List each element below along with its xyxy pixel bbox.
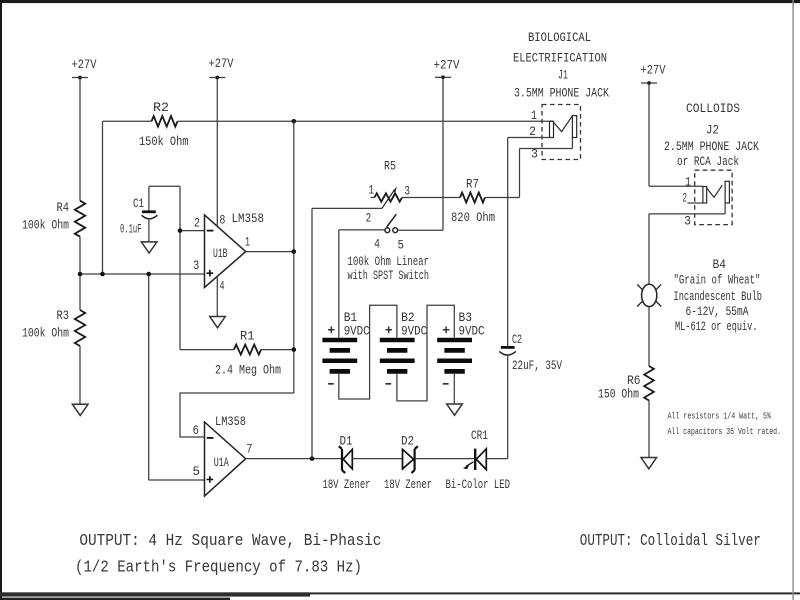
svg-text:All capacitors 35 Volt rated.: All capacitors 35 Volt rated. — [668, 426, 782, 437]
svg-text:D1: D1 — [340, 434, 353, 449]
wire R6 to ground — [648, 401, 650, 458]
svg-text:U1B: U1B — [213, 246, 228, 261]
svg-text:9VDC: 9VDC — [344, 323, 370, 338]
op-amp U1B — [193, 211, 264, 293]
node junction U1B output/feedback — [292, 249, 297, 254]
svg-text:150k Ohm: 150k Ohm — [139, 134, 189, 149]
svg-text:J2: J2 — [706, 123, 719, 138]
svg-text:6-12V, 55mA: 6-12V, 55mA — [686, 304, 749, 319]
svg-text:CR1: CR1 — [471, 428, 488, 443]
svg-text:+27V: +27V — [209, 56, 234, 71]
wire feedback vertical x=293.8 — [293, 121, 295, 393]
svg-text:C1: C1 — [133, 196, 144, 211]
svg-text:or RCA Jack: or RCA Jack — [677, 154, 739, 169]
svg-text:+27V: +27V — [72, 57, 97, 72]
wire bulb to R6 — [648, 307, 650, 366]
svg-text:with SPST Switch: with SPST Switch — [348, 268, 430, 283]
svg-text:5: 5 — [193, 464, 201, 479]
resistor R6 — [598, 366, 654, 401]
svg-text:1: 1 — [531, 108, 537, 123]
ground below R3 — [72, 404, 88, 415]
svg-text:D2: D2 — [401, 434, 414, 449]
svg-text:18V Zener: 18V Zener — [384, 477, 432, 492]
power +27V symbol A — [72, 57, 97, 79]
svg-text:100k Ohm: 100k Ohm — [22, 326, 69, 341]
wire J2 pin1 — [649, 185, 703, 187]
wire R2 left drop x=102.5 — [102, 121, 104, 274]
wire U1A output — [246, 458, 342, 460]
wire switch left to B1 — [339, 230, 385, 338]
wire U1A pin5 drop x=148.7 — [149, 274, 205, 480]
node junction U1A out / R5 wiper net — [310, 456, 315, 461]
label COLLOIDS / J2 heading — [664, 101, 759, 169]
svg-text:9VDC: 9VDC — [459, 323, 485, 338]
svg-text:R4: R4 — [57, 200, 70, 215]
svg-text:LM358: LM358 — [232, 211, 265, 226]
svg-text:OUTPUT: 4 Hz Square Wave, Bi-P: OUTPUT: 4 Hz Square Wave, Bi-Phasic — [79, 531, 381, 550]
svg-text:22uF, 35V: 22uF, 35V — [512, 358, 562, 373]
wire B2 bottom to B3 top — [397, 305, 454, 401]
resistor R2 — [139, 100, 189, 149]
svg-text:1: 1 — [685, 175, 691, 190]
svg-text:(1/2 Earth's Frequency of 7.83: (1/2 Earth's Frequency of 7.83 Hz) — [75, 557, 362, 576]
svg-text:4: 4 — [374, 237, 380, 252]
node +27V rail C (x=443) — [442, 78, 444, 230]
node junction x=148.7 on bus — [146, 272, 151, 277]
svg-text:B4: B4 — [713, 257, 727, 272]
svg-text:8: 8 — [219, 213, 225, 228]
wire top net y=121 to J1 pin 1 — [178, 120, 554, 122]
wire R7 to J1 pin3 — [485, 149, 573, 198]
svg-text:2.5MM PHONE JACK: 2.5MM PHONE JACK — [664, 139, 759, 154]
svg-text:U1A: U1A — [214, 455, 229, 470]
svg-text:2: 2 — [194, 215, 200, 230]
diode D1 18V Zener — [323, 434, 371, 493]
svg-text:100k Ohm Linear: 100k Ohm Linear — [348, 254, 430, 269]
svg-text:820 Ohm: 820 Ohm — [451, 210, 495, 225]
label BIOLOGICAL ELECTRIFICATION / J1 heading — [513, 30, 609, 101]
ground below R6 — [641, 458, 657, 469]
wire U1B pin4 to ground — [216, 277, 218, 317]
svg-text:C2: C2 — [512, 332, 522, 347]
wire C2 net vertical (J1 pin2 down) — [507, 138, 509, 459]
svg-text:ELECTRIFICATION: ELECTRIFICATION — [513, 51, 607, 66]
svg-text:LM358: LM358 — [215, 414, 246, 429]
svg-text:2.4 Meg Ohm: 2.4 Meg Ohm — [215, 363, 281, 378]
svg-text:ML-612 or equiv.: ML-612 or equiv. — [675, 319, 758, 334]
svg-text:Incandescent Bulb: Incandescent Bulb — [674, 289, 763, 304]
node junction R1/feedback — [292, 347, 297, 352]
capacitor C1 — [120, 186, 157, 242]
LED CR1 Bi-Color — [446, 428, 511, 492]
svg-text:1: 1 — [245, 235, 250, 250]
connector J1 3.5mm phone jack — [529, 105, 581, 162]
ground below C1 — [141, 242, 157, 253]
svg-text:2: 2 — [529, 124, 536, 139]
svg-text:5: 5 — [398, 238, 405, 253]
svg-text:+27V: +27V — [434, 58, 460, 73]
svg-text:2: 2 — [683, 191, 688, 206]
battery B1 9VDC — [322, 310, 369, 384]
wire B3 bottom to ground — [453, 374, 455, 404]
node +27V rail A (x=80) — [79, 78, 81, 201]
wire D2 to CR1 — [416, 458, 475, 460]
svg-text:COLLOIDS: COLLOIDS — [686, 101, 740, 116]
wire C1 net to U1B pin2 / R1 left — [149, 186, 180, 349]
svg-text:3.5MM PHONE JACK: 3.5MM PHONE JACK — [514, 86, 609, 101]
svg-text:7: 7 — [246, 441, 252, 456]
node +27V rail D (x=649) — [648, 83, 650, 186]
svg-text:1: 1 — [369, 183, 375, 198]
resistor R3 — [22, 308, 85, 346]
resistor R4 — [22, 200, 85, 237]
svg-text:R1: R1 — [240, 329, 255, 344]
node junction x=102.5 on bus — [100, 272, 105, 277]
svg-text:R5: R5 — [384, 159, 396, 174]
wire R5 wiper net x=312 — [312, 208, 382, 458]
switch SPST (part of R5) — [348, 214, 430, 283]
svg-text:2: 2 — [366, 211, 372, 226]
wire J2 pin3 to bulb — [649, 214, 725, 284]
wire R3 to ground — [79, 346, 81, 404]
capacitor C2 — [499, 332, 562, 373]
op-amp U1A — [193, 414, 253, 496]
resistor R7 — [451, 177, 495, 225]
svg-text:+27V: +27V — [641, 63, 666, 78]
wire D1 to D2 — [352, 458, 402, 460]
svg-text:4: 4 — [219, 278, 224, 293]
diode D2 18V Zener — [384, 434, 432, 493]
svg-text:OUTPUT: Colloidal Silver: OUTPUT: Colloidal Silver — [580, 531, 761, 550]
node junction C1 net / pin2 — [178, 228, 183, 233]
svg-text:R2: R2 — [153, 100, 169, 115]
svg-text:0.1uF: 0.1uF — [120, 222, 142, 237]
battery B3 9VDC — [437, 310, 484, 384]
power +27V symbol D — [641, 63, 666, 85]
svg-text:6: 6 — [193, 423, 200, 438]
wire R4 to R3 — [79, 237, 81, 310]
wire U1B pin2 stub — [180, 230, 205, 232]
wire R5 pin3 to R7 — [402, 197, 460, 199]
bulb B4 grain of wheat — [637, 257, 762, 334]
wire feedback jog to U1A pin6 — [180, 393, 294, 437]
wire CR1 to C2 net — [486, 458, 507, 460]
power +27V symbol B — [209, 56, 234, 79]
connector J2 2.5mm phone jack — [683, 170, 733, 228]
resistor R1 — [215, 329, 281, 378]
potentiometer R5 with wiper arrow — [366, 159, 410, 226]
svg-text:BIOLOGICAL: BIOLOGICAL — [528, 30, 591, 45]
wire R1 left — [180, 349, 234, 351]
wire U1B pin8 +27V rail B — [216, 78, 218, 227]
node junction feedback/top net — [292, 119, 297, 124]
svg-text:3: 3 — [404, 184, 410, 199]
svg-text:9VDC: 9VDC — [401, 323, 427, 338]
svg-text:"Grain of Wheat": "Grain of Wheat" — [674, 272, 761, 287]
wire U1B output — [246, 251, 294, 253]
svg-text:All resistors 1/4 Watt, 5%: All resistors 1/4 Watt, 5% — [668, 411, 772, 422]
wire top net y=121 left segment — [103, 120, 152, 122]
wire R1 right — [261, 349, 294, 351]
wire J1 pin2 — [508, 137, 554, 139]
ground below B3 — [447, 404, 463, 415]
svg-text:Bi-Color LED: Bi-Color LED — [446, 477, 511, 492]
svg-text:150 Ohm: 150 Ohm — [598, 386, 639, 401]
node junction R4/R3/bus — [78, 272, 83, 277]
wire non-inverting bus y=274 — [80, 273, 205, 275]
battery B2 9VDC — [380, 310, 427, 384]
svg-text:100k Ohm: 100k Ohm — [22, 218, 69, 233]
svg-text:3: 3 — [684, 214, 691, 229]
power +27V symbol C — [434, 58, 460, 80]
svg-text:R3: R3 — [57, 308, 70, 323]
svg-text:18V Zener: 18V Zener — [323, 477, 371, 492]
ground below U1B pin4 — [210, 317, 226, 328]
wire B1 bottom to B2 top — [339, 305, 397, 399]
svg-text:J1: J1 — [558, 68, 568, 83]
svg-text:3: 3 — [531, 147, 538, 162]
svg-text:3: 3 — [193, 258, 199, 273]
wire switch right to +27V rail C — [398, 229, 443, 231]
svg-text:R7: R7 — [466, 177, 479, 192]
